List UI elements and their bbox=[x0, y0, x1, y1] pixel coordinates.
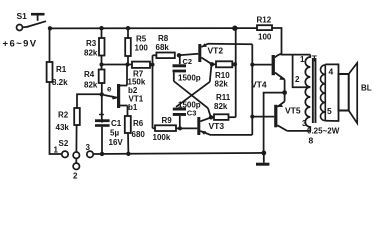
wire R4 bottom to C1 bbox=[101, 83, 103, 119]
node rail top bbox=[232, 26, 237, 31]
node R7/R8/R9 junction bbox=[151, 63, 155, 67]
transistor VT5 bbox=[274, 93, 287, 131]
node C3 bottom junction bbox=[178, 126, 182, 130]
speaker BL bbox=[339, 63, 358, 123]
svg-text:b1: b1 bbox=[128, 103, 138, 112]
svg-text:2: 2 bbox=[73, 172, 78, 181]
node battery junction bbox=[48, 26, 52, 30]
resistor R9 bbox=[153, 127, 156, 129]
wire VT5 collector to pin 3 bbox=[287, 130, 310, 132]
node VT5 base tap bbox=[250, 115, 254, 119]
wire R12 to transformer bbox=[272, 28, 310, 55]
resistor R11 bbox=[214, 114, 229, 120]
wire bias row to R7 bbox=[102, 64, 133, 66]
resistor R7 bbox=[132, 62, 150, 68]
svg-text:VT5: VT5 bbox=[285, 106, 301, 116]
transistor VT3 bbox=[197, 117, 211, 135]
wire R5 bottom to bias row bbox=[127, 56, 129, 65]
svg-text:R5: R5 bbox=[136, 35, 147, 44]
wire R1 bottom to S2 contact 1 bbox=[50, 82, 62, 154]
node R5 top bbox=[126, 26, 130, 30]
node R3 top bbox=[99, 26, 103, 30]
transformer secondary winding bbox=[320, 64, 325, 120]
svg-text:8.2k: 8.2k bbox=[52, 78, 68, 87]
svg-text:S2: S2 bbox=[59, 139, 69, 148]
capacitor C3 bbox=[173, 108, 186, 129]
svg-text:C2: C2 bbox=[183, 57, 193, 66]
wire secondary to speaker loop bbox=[325, 64, 338, 121]
svg-text:43k: 43k bbox=[56, 123, 70, 132]
resistor R12 bbox=[257, 25, 272, 30]
svg-text:R12: R12 bbox=[257, 16, 272, 25]
switch S2 bbox=[62, 151, 93, 169]
svg-text:VT3: VT3 bbox=[209, 121, 225, 131]
wire R3 bottom to R4 top bbox=[101, 56, 103, 70]
wire cross coupling X bbox=[174, 64, 212, 117]
wire VT3 collector to driver rail bbox=[211, 134, 252, 136]
wire VT5 base bbox=[252, 116, 274, 118]
wire +V feed rail bbox=[235, 28, 237, 117]
node R5 bottom junction bbox=[126, 63, 130, 67]
node VT1 emitter junction bbox=[100, 92, 104, 96]
svg-text:100: 100 bbox=[258, 33, 272, 42]
svg-text:+6~9V: +6~9V bbox=[3, 39, 38, 50]
svg-text:R11: R11 bbox=[216, 93, 231, 102]
svg-text:BL: BL bbox=[361, 84, 372, 93]
node R6 ground bbox=[126, 152, 130, 156]
svg-text:VT4: VT4 bbox=[251, 80, 267, 90]
transistor VT1 unijunction bbox=[104, 65, 128, 117]
svg-text:100k: 100k bbox=[153, 133, 171, 142]
ground bbox=[256, 153, 269, 166]
resistor R5 bbox=[127, 28, 129, 38]
svg-text:82k: 82k bbox=[215, 80, 229, 89]
svg-text:1500p: 1500p bbox=[178, 73, 201, 82]
svg-text:16V: 16V bbox=[109, 138, 124, 147]
transistor VT4 bbox=[272, 54, 285, 93]
node C2 top junction bbox=[177, 53, 181, 57]
svg-text:680: 680 bbox=[132, 130, 146, 139]
transformer core bbox=[312, 58, 314, 123]
wire top power rail bbox=[50, 27, 258, 29]
svg-text:82k: 82k bbox=[84, 81, 98, 90]
capacitor C2 bbox=[173, 55, 187, 81]
resistor R3 bbox=[101, 28, 103, 38]
resistor R4 bbox=[99, 70, 105, 84]
node C1 ground bbox=[100, 152, 104, 156]
wire left rail down to R1 bbox=[49, 28, 51, 62]
svg-text:R4: R4 bbox=[84, 70, 95, 79]
resistor R6 bbox=[125, 116, 131, 133]
svg-text:1: 1 bbox=[54, 146, 59, 155]
svg-text:R3: R3 bbox=[86, 39, 97, 48]
svg-text:4: 4 bbox=[329, 67, 334, 77]
svg-text:C3: C3 bbox=[187, 108, 197, 117]
transistor VT2 bbox=[198, 43, 212, 64]
svg-text:0.25~2W: 0.25~2W bbox=[307, 127, 340, 136]
resistor R1 bbox=[47, 62, 53, 82]
resistor R8 bbox=[153, 54, 157, 56]
svg-text:R9: R9 bbox=[162, 116, 173, 125]
node R3/R4 junction bbox=[100, 63, 104, 67]
resistor R10 bbox=[210, 62, 214, 66]
switch S1 bbox=[17, 14, 47, 30]
svg-text:R6: R6 bbox=[133, 119, 144, 128]
wire emitters to ground bbox=[264, 93, 285, 153]
wire left multivibrator rail bbox=[152, 55, 154, 128]
wire ground rail bbox=[93, 153, 263, 154]
svg-text:e: e bbox=[107, 85, 112, 94]
svg-text:5µ: 5µ bbox=[110, 129, 119, 138]
wire primary tap box bbox=[293, 55, 311, 88]
svg-text:C1: C1 bbox=[111, 119, 122, 128]
wire driver vertical rail bbox=[251, 44, 253, 135]
svg-text:R1: R1 bbox=[56, 65, 67, 74]
svg-text:82k: 82k bbox=[84, 49, 98, 58]
svg-text:1: 1 bbox=[300, 55, 305, 64]
svg-text:2: 2 bbox=[295, 75, 300, 84]
svg-text:82k: 82k bbox=[214, 102, 228, 111]
wire VT2 collector to driver rail bbox=[208, 43, 252, 46]
svg-text:R8: R8 bbox=[158, 34, 169, 43]
wire VT4 base bbox=[252, 64, 271, 66]
node emitter junction bbox=[282, 90, 287, 95]
svg-text:8: 8 bbox=[309, 136, 314, 146]
svg-text:R2: R2 bbox=[58, 111, 69, 120]
wire R8 to VT2 base bbox=[179, 54, 198, 55]
svg-text:3: 3 bbox=[86, 143, 91, 152]
svg-text:S1: S1 bbox=[17, 11, 28, 21]
capacitor C1 electrolytic bbox=[95, 112, 110, 154]
svg-text:VT2: VT2 bbox=[208, 46, 224, 56]
resistor R2 bbox=[77, 94, 102, 108]
node ground junction bbox=[261, 151, 266, 156]
svg-text:150k: 150k bbox=[128, 78, 146, 87]
svg-text:100: 100 bbox=[135, 44, 149, 53]
svg-text:68k: 68k bbox=[156, 43, 170, 52]
node VT4 base tap bbox=[250, 63, 254, 67]
transformer T primary winding bbox=[305, 55, 310, 131]
svg-text:5: 5 bbox=[327, 106, 332, 116]
